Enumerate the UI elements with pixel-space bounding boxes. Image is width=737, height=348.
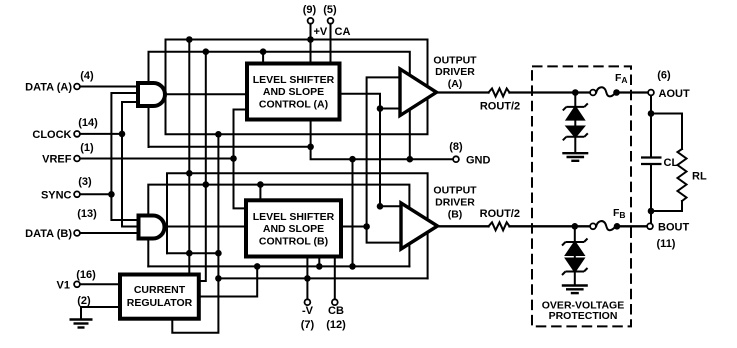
dashed over-voltage protection box — [532, 66, 631, 326]
AND gate A — [138, 83, 165, 106]
wire CA pin stub — [330, 24, 332, 64]
wire load cap CL branch lower — [650, 164, 652, 211]
wire CB pin stub into LS-B — [334, 257, 336, 300]
wire LS-A output path — [340, 94, 402, 207]
node -V on rail — [304, 275, 311, 282]
wire LS-A bottom stub to GND — [310, 120, 312, 147]
wire VREF distribution to LS-A and LS-B — [234, 110, 248, 209]
wire GND-B rail — [148, 265, 409, 267]
svg-text:(2): (2) — [77, 295, 91, 307]
svg-text:(11): (11) — [657, 238, 676, 250]
node bus x206 on inner A rail — [203, 48, 210, 55]
node x218 on outer A bottom — [215, 131, 222, 138]
wire inner rect B top edge — [148, 185, 409, 267]
svg-text:CB: CB — [328, 305, 344, 317]
svg-text:(3): (3) — [78, 176, 92, 188]
terminal DATA (B) — [74, 230, 80, 236]
terminal CB — [332, 299, 338, 305]
terminal CLOCK — [74, 131, 80, 137]
node x218 on -V rail — [215, 275, 222, 282]
svg-text:V1: V1 — [57, 280, 70, 292]
svg-text:DATA (B): DATA (B) — [25, 228, 72, 240]
wire zener branch A stem — [574, 93, 576, 107]
wire DATA (B) lead — [80, 232, 138, 234]
svg-text:+V: +V — [314, 26, 328, 38]
wire GND jog from LS-A bottom rail — [311, 147, 453, 159]
node cross-couple at LS-B output — [363, 223, 370, 230]
resistor RL — [678, 149, 687, 201]
node CLOCK junction — [119, 131, 126, 138]
wire driver B output — [437, 225, 489, 227]
terminal AOUT — [648, 90, 654, 96]
svg-text:DATA (A): DATA (A) — [25, 82, 72, 94]
terminal fuse A left — [590, 90, 596, 96]
zener diode pair B — [562, 239, 588, 276]
node fuse B right — [614, 223, 621, 230]
node BOUT load tap — [648, 208, 655, 215]
svg-text:CONTROL (A): CONTROL (A) — [259, 98, 328, 110]
ground (zener A) — [562, 153, 588, 161]
terminal GND — [453, 156, 459, 162]
op-amp output driver A — [400, 69, 437, 116]
node zener B tap — [572, 223, 579, 230]
svg-text:(12): (12) — [326, 319, 346, 331]
svg-text:PROTECTION: PROTECTION — [549, 310, 618, 322]
terminal pin 5 — [328, 18, 334, 24]
svg-text:(16): (16) — [76, 269, 96, 281]
wire cross-couple B out to driver A upper input — [367, 77, 400, 226]
node LS-B top stub — [257, 181, 264, 188]
terminal fuse B left — [590, 223, 596, 229]
svg-text:OUTPUT: OUTPUT — [433, 185, 477, 197]
svg-text:BOUT: BOUT — [658, 222, 689, 234]
svg-text:(1): (1) — [80, 142, 94, 154]
wire RL bottom — [651, 201, 682, 211]
wire CLOCK riser to both gates — [122, 102, 138, 227]
node GND interconnect bottom — [349, 263, 356, 270]
terminal circles — [74, 18, 654, 305]
node driver B upper input — [377, 203, 384, 210]
svg-text:(4): (4) — [80, 70, 94, 82]
wire outer rect B top edge — [167, 173, 428, 278]
terminal SYNC — [74, 191, 80, 197]
svg-text:DRIVER: DRIVER — [435, 66, 475, 78]
block current regulator — [120, 275, 199, 319]
svg-text:(6): (6) — [657, 70, 671, 82]
svg-text:ROUT/2: ROUT/2 — [480, 101, 520, 113]
svg-text:GND: GND — [466, 155, 491, 167]
wire fuse to BOUT — [617, 225, 648, 227]
svg-text:(8): (8) — [449, 141, 463, 153]
svg-text:(9): (9) — [303, 4, 317, 16]
node LS-A top stub — [260, 48, 267, 55]
wire +V bus vertical x=189 — [188, 40, 190, 276]
fuse FB — [596, 221, 616, 230]
ground (pin 2) — [70, 320, 93, 328]
wire zener branch B stem — [574, 226, 576, 242]
svg-text:SYNC: SYNC — [41, 190, 72, 202]
terminal pin 9 — [308, 18, 314, 24]
node fuse A right — [613, 89, 620, 96]
node VREF tap — [230, 155, 237, 162]
wire zener B middle link — [574, 255, 576, 259]
terminal BOUT — [647, 223, 653, 229]
svg-text:(A): (A) — [448, 78, 463, 90]
svg-text:VREF: VREF — [42, 154, 72, 166]
capacitor CL — [641, 158, 662, 165]
wire driver A output — [437, 91, 489, 93]
svg-text:AOUT: AOUT — [659, 88, 690, 100]
terminal DATA (A) — [74, 84, 80, 90]
wire GND bus vertical x=206 into regulator right — [199, 52, 206, 281]
wire outer rect A top edge (+V rail) — [166, 40, 428, 135]
svg-text:ROUT/2: ROUT/2 — [480, 208, 520, 220]
wire SYNC riser to both gates — [111, 93, 137, 220]
wire zener B to ground — [574, 272, 576, 286]
wire to protection node B — [510, 225, 590, 227]
wire -V rail — [218, 277, 427, 279]
svg-text:(7): (7) — [301, 319, 315, 331]
node LS-A GND stub — [307, 144, 314, 151]
block level shifter A — [247, 64, 340, 120]
wire gate A output to LS-A — [167, 93, 248, 95]
svg-text:CLOCK: CLOCK — [32, 129, 71, 141]
wire vertical x=218 to regulator bottom — [172, 134, 218, 332]
wire zener A to ground — [574, 137, 576, 153]
node x218 on outer B bottom — [215, 250, 222, 257]
wire outer rect B bottom segment — [167, 252, 218, 254]
wire zener A middle link — [574, 120, 576, 127]
node +V on outer A rail — [307, 36, 314, 43]
node driver A lower input — [377, 105, 384, 112]
wire stub to driver A lower input — [380, 108, 400, 110]
node x189 on outer B bottom — [186, 250, 193, 257]
svg-text:(14): (14) — [78, 117, 98, 129]
wire SYNC lead — [80, 193, 111, 195]
resistor ROUT/2 (B) — [489, 222, 510, 230]
wire LS-B bottom stub to GND-B rail — [318, 257, 320, 267]
wire load cap CL branch upper — [650, 114, 652, 158]
wire cross-couple node down to driver B lower input — [367, 227, 401, 243]
wire BOUT to load node — [650, 211, 652, 223]
svg-text:-V: -V — [302, 305, 314, 317]
wire DATA (A) lead — [80, 86, 137, 88]
node LS-B GND stub — [316, 263, 323, 270]
svg-text:CA: CA — [335, 26, 351, 38]
svg-text:(13): (13) — [77, 208, 97, 220]
svg-text:AND SLOPE: AND SLOPE — [263, 86, 324, 98]
svg-text:DRIVER: DRIVER — [435, 197, 475, 209]
svg-text:REGULATOR: REGULATOR — [127, 297, 193, 309]
svg-text:CURRENT: CURRENT — [134, 284, 186, 296]
wire gate B output to LS-B — [167, 226, 247, 228]
wire RL branch — [651, 114, 682, 150]
svg-text:(B): (B) — [448, 209, 463, 221]
wire VREF lead — [80, 158, 234, 160]
node zener A tap — [572, 89, 579, 96]
zener diode pair A — [563, 103, 588, 140]
wire -V pin stub into LS-B — [306, 257, 308, 300]
block level shifter B — [246, 200, 341, 256]
svg-text:OUTPUT: OUTPUT — [433, 55, 477, 67]
svg-text:CL: CL — [664, 157, 679, 169]
svg-text:CONTROL (B): CONTROL (B) — [259, 235, 328, 247]
wire pin2 ground lead — [81, 307, 120, 320]
wire fuse to AOUT — [617, 91, 649, 93]
wire inner rect A (GND loop) — [149, 52, 410, 160]
svg-text:AND SLOPE: AND SLOPE — [263, 223, 324, 235]
AND gate B — [139, 216, 165, 239]
wire GND stub into LS-A top — [262, 52, 264, 64]
node bus x206 on inner B rail — [203, 181, 210, 188]
resistor ROUT/2 (A) — [489, 89, 510, 97]
node SYNC junction — [108, 191, 115, 198]
wire LS-B top stub line — [259, 185, 261, 201]
terminal VREF — [74, 156, 80, 162]
node inner-A right on GND line — [407, 156, 414, 163]
terminal -V — [305, 299, 311, 305]
wire LS-B output to cross-couple node — [341, 226, 367, 228]
wire inner rect A bottom — [149, 146, 311, 148]
fuse FA — [596, 87, 616, 96]
node bus x189 on outer A rail — [186, 36, 193, 43]
wire to protection node A — [510, 91, 590, 93]
node bus x189 on outer B rail — [186, 170, 193, 177]
node AOUT load tap — [648, 110, 655, 117]
node regulator feed — [254, 263, 261, 270]
wire V1 lead — [80, 283, 120, 285]
terminal V1 — [74, 281, 80, 287]
wire +V pin stub — [310, 24, 312, 64]
wire regulator feed from GND-B rail — [199, 266, 257, 296]
op-amp output driver B — [401, 203, 438, 249]
wire CLOCK lead — [80, 133, 122, 135]
wire AOUT to load node — [650, 93, 652, 114]
svg-text:RL: RL — [692, 171, 707, 183]
wire GND interconnect x=352 — [352, 159, 354, 266]
svg-text:LEVEL SHIFTER: LEVEL SHIFTER — [253, 74, 335, 86]
svg-text:LEVEL SHIFTER: LEVEL SHIFTER — [253, 211, 335, 223]
ground (zener B) — [562, 286, 588, 294]
svg-text:(5): (5) — [323, 4, 337, 16]
node GND interconnect top — [349, 156, 356, 163]
